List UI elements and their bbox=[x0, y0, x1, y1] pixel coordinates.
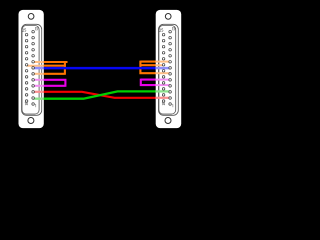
connector J1 shell inner outline bbox=[22, 26, 39, 115]
connector J2 pin column 14-25 bbox=[162, 33, 165, 102]
wire: J1 jumper stub pin20 (pastel inside body) bbox=[27, 65, 44, 67]
wire: red stub at J2 pin2 (pastel inside body) bbox=[156, 97, 171, 99]
connector J1 top screw hole bbox=[28, 14, 34, 20]
pin label 14 at J1 bbox=[25, 102, 28, 105]
connector J1 (left DB25) body bbox=[19, 10, 44, 128]
pin label 25 at J1 bbox=[22, 29, 26, 32]
wire: ground blue stub at J2 pin7 (pastel inside body) bbox=[156, 67, 171, 70]
connector J1 pin column 1-13 bbox=[32, 30, 35, 105]
wire: red TxD stub at J1 pin3 (pastel inside body) bbox=[33, 91, 44, 93]
pin label 25 at J2 bbox=[160, 29, 164, 32]
wire: J2 magenta loopback jumper pins 4-5 bbox=[141, 79, 156, 87]
wire: J1 jumper stub pin4 (pastel inside body) bbox=[33, 85, 44, 87]
connector J2 top screw hole bbox=[165, 14, 171, 20]
connector J2 (right DB25) body bbox=[156, 10, 182, 128]
wire: J1 jumper stub pin6 (pastel inside body) bbox=[33, 73, 44, 75]
wire: J2 jumper stub pin8 (pastel inside body) bbox=[156, 61, 171, 63]
wire: J2 jumper stub pin5 (pastel inside body) bbox=[156, 79, 171, 81]
connector J1 bottom screw hole bbox=[28, 118, 34, 124]
wire: J1 orange loopback jumper pins 6-8-20 bbox=[44, 61, 68, 75]
wire: ground blue stub at J1 pin7 (pastel inside body) bbox=[33, 67, 44, 70]
pin label 1 at J2 bbox=[171, 104, 174, 107]
wire: J2 jumper stub pin20 (pastel inside body) bbox=[156, 64, 164, 66]
connector J2 shell outer outline bbox=[159, 24, 179, 115]
wire: J2 jumper stub pin6 (pastel inside body) bbox=[156, 72, 171, 74]
wire: ground blue pin7 to pin7 bbox=[44, 67, 156, 70]
connector J2 pin column 1-13 bbox=[169, 30, 172, 105]
wire: green RxD stub at J1 pin2 (pastel inside body) bbox=[33, 98, 44, 100]
connector J2 shell inner outline bbox=[159, 26, 176, 115]
wire: green stub at J2 pin3 (pastel inside body) bbox=[156, 90, 171, 92]
pin label 13 at J2 bbox=[172, 27, 175, 30]
wire: J2 jumper stub pin4 (pastel inside body) bbox=[156, 84, 171, 86]
pin label 14 at J2 bbox=[162, 102, 165, 105]
connector J2 bottom screw hole bbox=[165, 118, 171, 124]
wire: J1 magenta loopback jumper pins 4-5 bbox=[44, 79, 66, 87]
wire: J2 orange loopback jumper pins 6-8-20 bbox=[140, 61, 155, 75]
pin label 1 at J1 bbox=[34, 104, 37, 107]
pin label 13 at J1 bbox=[35, 27, 38, 30]
wire: green crossover J1 pin2 to J2 pin3 bbox=[44, 91, 156, 98]
wire: J1 RTS/CTS jumper stub pin5 (pastel inside body) bbox=[33, 79, 44, 81]
connector J1 pin column 14-25 bbox=[25, 33, 28, 102]
wire: J1 RTS/DCD jumper stub pin8 (pastel inside body) bbox=[33, 61, 44, 63]
wire: red crossover J1 pin3 to J2 pin2 bbox=[44, 92, 156, 98]
connector J1 shell outer outline bbox=[22, 24, 42, 115]
